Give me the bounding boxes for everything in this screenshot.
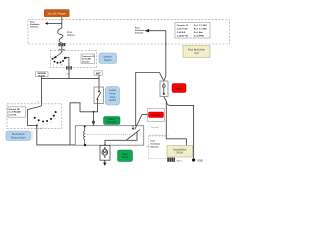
boundary: rotary switch dashed box [7, 104, 62, 129]
fuse F1 [58, 28, 63, 43]
motor M1 [100, 145, 110, 160]
wire to bus [68, 70, 70, 79]
ignition switch S1 contacts [52, 57, 67, 66]
override holder box [148, 109, 165, 122]
svg-text:C+48 17-26V: C+48 17-26V [177, 28, 189, 31]
svg-text:Schematic: Schematic [151, 146, 160, 149]
svg-text:b: b [61, 64, 62, 66]
svg-text:6: 6 [54, 118, 55, 120]
svg-text:Grd: Grd [195, 52, 200, 55]
svg-text:D+2 RRW: D+2 RRW [194, 36, 204, 38]
battery B1 [160, 81, 168, 97]
legend box [175, 23, 210, 39]
ignition pinout box [81, 54, 95, 64]
svg-text:Rotary Switch: Rotary Switch [11, 136, 26, 139]
svg-text:1 ph: 1 ph [38, 128, 42, 130]
svg-text:GND: GND [197, 159, 203, 163]
junction [93, 111, 95, 113]
node chip BAT [94, 71, 103, 76]
callout: Override (red) [149, 112, 164, 118]
svg-text:Solenoid: Solenoid [107, 122, 117, 124]
wire: diagonal to battery top [160, 73, 164, 82]
wire: long vertical from ignition feed [136, 73, 160, 126]
PSU box (yellow) [167, 146, 193, 158]
svg-text:Override: Override [151, 114, 161, 117]
svg-text:Schematics: Schematics [135, 32, 144, 35]
svg-text:BLOCK: BLOCK [38, 75, 45, 77]
svg-text:BAT: BAT [96, 72, 101, 75]
svg-text:L2 P-M: L2 P-M [9, 114, 16, 116]
svg-text:Connector 16: Connector 16 [177, 24, 189, 27]
callout: Ignition Switch (blue) [99, 53, 117, 64]
relay coil [84, 125, 87, 146]
wire [61, 46, 63, 52]
wire: override to relay [135, 114, 149, 130]
svg-text:1 ph: 1 ph [146, 146, 150, 148]
node chip GROUND [36, 72, 49, 78]
wire: rotary exit to relay [37, 126, 76, 145]
ground arrow under motor [103, 160, 106, 166]
svg-text:Battery: Battery [175, 87, 184, 91]
svg-text:5V/3A: 5V/3A [176, 152, 183, 155]
ignition switch S1 wiper [53, 52, 62, 59]
float switch box [94, 87, 104, 104]
svg-text:12v DC Power: 12v DC Power [47, 12, 66, 16]
leader line [31, 131, 33, 141]
mechanical linkage (dotted) [87, 134, 131, 136]
svg-text:Pump: Pump [122, 157, 129, 159]
wire down to relay top [93, 112, 95, 126]
connector on boundary (bulkhead) [58, 43, 65, 46]
label: power distribution (bottom right) [151, 141, 161, 149]
svg-text:5: 5 [51, 121, 52, 123]
wire: battery negative branches [164, 97, 194, 159]
callout: Starter Solenoid (green) [104, 117, 121, 125]
svg-text:3: 3 [42, 124, 43, 126]
label: Power Distribution Schematics (left) [30, 22, 40, 29]
svg-text:Distribution: Distribution [151, 143, 161, 146]
relay K1 box [75, 126, 143, 146]
boundary: power distribution dashed region [28, 20, 230, 44]
svg-text:30Amp: 30Amp [67, 34, 75, 37]
callout: Liquid Head Float Switch (blue) [106, 87, 120, 106]
callout: Fuse Box (yellow, top right) [183, 46, 210, 58]
callout: Mechanical Rotary Switch (blue) [6, 131, 31, 141]
wire from source down [61, 17, 63, 28]
boundary: ignition switch dashed box [51, 50, 97, 67]
wire: contact return to motor [105, 132, 137, 145]
wire: float switch down and detour left [70, 103, 98, 145]
svg-text:Switch: Switch [104, 58, 112, 62]
svg-text:C+7 BD(4)V: C+7 BD(4)V [9, 111, 22, 114]
boundary: PSU dashed box with ticks [149, 134, 169, 158]
svg-text:Schematics: Schematics [30, 26, 39, 29]
svg-text:16 H+4B: 16 H+4B [82, 58, 91, 61]
wire: right feeder with arrow [145, 29, 167, 81]
connector (grey) at switch box edge [59, 49, 65, 51]
svg-text:Switch: Switch [109, 99, 117, 102]
svg-text:Power: Power [151, 141, 156, 143]
connector on ignition box bottom edge [66, 66, 72, 69]
svg-text:GND 1: GND 1 [176, 160, 183, 162]
svg-text:D+1 17-26V: D+1 17-26V [194, 25, 208, 27]
svg-text:Bilge: Bilge [122, 154, 128, 156]
rotary pinout box [8, 107, 26, 117]
svg-text:D+1 Bat: D+1 Bat [194, 31, 203, 34]
arrow wire to left label [45, 22, 62, 25]
wire: ground chip drop [41, 77, 43, 106]
wire from selected contact [65, 58, 69, 67]
connector below PSU [167, 158, 183, 163]
value label: Fuse 30Amp [67, 31, 75, 37]
svg-text:Switch 1B: Switch 1B [9, 108, 20, 111]
svg-text:C+4B AP GN: C+4B AP GN [177, 35, 189, 38]
bus wire [42, 77, 100, 79]
power source label (orange) [44, 9, 70, 17]
svg-text:2: 2 [38, 123, 39, 125]
svg-text:4: 4 [46, 123, 47, 125]
svg-text:Connectr 10: Connectr 10 [82, 55, 95, 58]
svg-text:R+1 17-28V: R+1 17-28V [194, 29, 208, 31]
relay contact stub and lever [127, 126, 141, 140]
svg-text:C+46 B-R: C+46 B-R [177, 31, 186, 34]
wire: bat drop to float switch [98, 75, 100, 87]
connector small [92, 121, 95, 124]
svg-text:Grounds: Grounds [151, 127, 159, 129]
rotary switch S2 wiper and return route [27, 106, 41, 127]
ground terminal GND [192, 158, 203, 162]
svg-text:16-wire: 16-wire [82, 61, 90, 63]
callout: Bilge Pump (green) [118, 150, 133, 162]
rotary switch S2 contacts [34, 111, 57, 126]
callout: Battery (red) [172, 84, 186, 93]
junction on relay top [93, 125, 95, 127]
label: Power Distribution Schematics (right) [135, 28, 145, 35]
svg-text:Starter: Starter [108, 118, 115, 121]
